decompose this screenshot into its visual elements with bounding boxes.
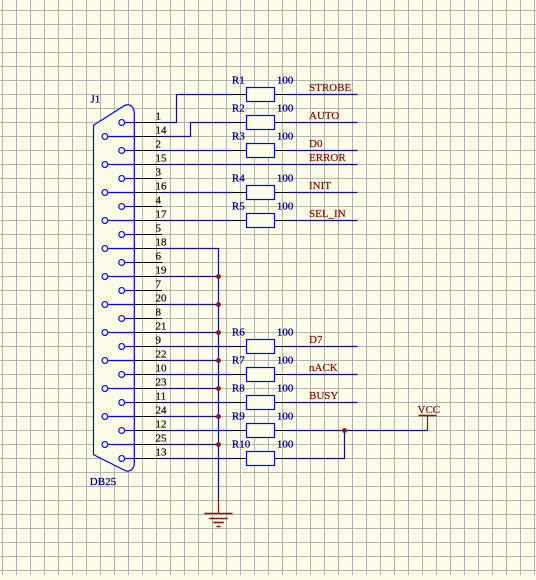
wire net BUSY (289, 402, 358, 404)
wire pin23 to bus (162, 388, 219, 390)
svg-text:J1: J1 (91, 94, 101, 106)
wire pin12 to R9 (162, 430, 233, 432)
svg-text:SEL_IN: SEL_IN (309, 208, 346, 220)
wire net stub y=220 (289, 220, 358, 222)
svg-text:100: 100 (277, 130, 294, 142)
pin 5 (119, 222, 162, 237)
svg-text:VCC: VCC (418, 404, 441, 416)
wire net stub y=122 (289, 122, 358, 124)
wire net nACK (289, 374, 358, 376)
svg-text:R6: R6 (232, 326, 245, 338)
wire pin21 to bus (162, 332, 219, 334)
pin 25 (102, 432, 167, 447)
wire pin10 to R7 (162, 374, 233, 376)
svg-text:INIT: INIT (309, 180, 331, 192)
wire net stub y=192 (289, 192, 358, 194)
svg-text:100: 100 (277, 102, 294, 114)
wire pin17 to R5 (162, 220, 233, 222)
connector J1 body (94, 105, 135, 471)
svg-text:DB25: DB25 (90, 476, 117, 488)
svg-text:R2: R2 (232, 102, 245, 114)
pin 19 (102, 264, 167, 279)
svg-text:D0: D0 (309, 138, 323, 150)
pin 8 (119, 306, 162, 321)
svg-text:3: 3 (156, 166, 162, 178)
pin 17 (102, 208, 167, 223)
svg-text:25: 25 (156, 432, 168, 444)
wire R9 to VCC (289, 430, 428, 432)
svg-text:11: 11 (156, 390, 167, 402)
pin 21 (102, 320, 167, 335)
pin 1 (119, 110, 162, 125)
svg-text:22: 22 (156, 348, 167, 360)
svg-text:ERROR: ERROR (309, 152, 346, 164)
junction (216, 358, 221, 363)
wire pin9 to R6 (162, 346, 233, 348)
svg-text:8: 8 (156, 306, 162, 318)
svg-text:100: 100 (277, 200, 294, 212)
wire pin2 to R3 (162, 150, 233, 152)
svg-text:100: 100 (277, 326, 294, 338)
svg-text:100: 100 (277, 410, 294, 422)
junction (216, 302, 221, 307)
pin 22 (102, 348, 167, 363)
svg-text:R4: R4 (232, 172, 245, 184)
svg-text:R5: R5 (232, 200, 245, 212)
svg-text:7: 7 (156, 278, 162, 290)
wire net D7 (289, 346, 358, 348)
svg-text:100: 100 (277, 172, 294, 184)
svg-text:6: 6 (156, 250, 162, 262)
svg-text:21: 21 (156, 320, 167, 332)
wire R10 riser to junction (289, 431, 345, 459)
svg-text:STROBE: STROBE (309, 82, 351, 94)
svg-text:100: 100 (277, 438, 294, 450)
pin 12 (119, 418, 167, 433)
wire pin19 to bus (162, 276, 219, 278)
power port VCC (418, 404, 441, 431)
pin 11 (119, 390, 166, 405)
resistor R1 value 100 (232, 74, 294, 101)
wire pin22 to bus (162, 360, 219, 362)
svg-text:10: 10 (156, 362, 168, 374)
svg-text:14: 14 (156, 124, 168, 136)
svg-text:2: 2 (156, 138, 162, 150)
pin 9 (119, 334, 162, 349)
junction (342, 428, 347, 433)
svg-text:nACK: nACK (309, 362, 338, 374)
pin 4 (119, 194, 162, 209)
svg-text:R7: R7 (232, 354, 245, 366)
svg-text:17: 17 (156, 208, 168, 220)
svg-text:D7: D7 (309, 334, 323, 346)
wire net stub y=150 (289, 150, 358, 152)
pin 15 (102, 152, 167, 167)
resistor R2 value 100 (232, 102, 294, 129)
wire pin24 to bus (162, 416, 219, 418)
junction (216, 330, 221, 335)
svg-text:13: 13 (156, 446, 168, 458)
svg-text:R1: R1 (232, 74, 245, 86)
wire pin25 to bus (162, 444, 219, 446)
wire pin1 to R1 (162, 95, 233, 123)
pin 24 (102, 404, 167, 419)
pin 23 (102, 376, 167, 391)
pin 18 (102, 236, 167, 251)
pin 16 (102, 180, 167, 195)
wire pin18 to ground bus (162, 249, 219, 500)
svg-text:5: 5 (156, 222, 162, 234)
resistor R8 value 100 (232, 382, 294, 409)
pin 10 (119, 362, 167, 377)
svg-text:R3: R3 (232, 130, 245, 142)
junction (216, 386, 221, 391)
wire pin11 to R8 (162, 402, 233, 404)
resistor R9 value 100 (232, 410, 294, 437)
wire pin16 to R4 (162, 192, 233, 194)
svg-text:16: 16 (156, 180, 168, 192)
svg-text:100: 100 (277, 354, 294, 366)
resistor R4 value 100 (232, 172, 294, 199)
svg-text:100: 100 (277, 74, 294, 86)
svg-text:24: 24 (156, 404, 168, 416)
svg-text:19: 19 (156, 264, 168, 276)
resistor R5 value 100 (232, 200, 294, 227)
svg-text:12: 12 (156, 418, 167, 430)
pin 13 (119, 446, 167, 461)
pin 20 (102, 292, 167, 307)
svg-text:4: 4 (156, 194, 162, 206)
wire pin14 to R2 (162, 123, 233, 137)
resistor R10 value 100 (232, 438, 294, 465)
junction (216, 414, 221, 419)
resistor R6 value 100 (232, 326, 294, 353)
ground symbol (204, 499, 232, 527)
pin 2 (119, 138, 162, 153)
junction (216, 274, 221, 279)
pin 3 (119, 166, 162, 181)
junction (216, 442, 221, 447)
resistor R3 value 100 (232, 130, 294, 157)
svg-text:15: 15 (156, 152, 168, 164)
svg-text:R10: R10 (232, 438, 251, 450)
svg-text:BUSY: BUSY (309, 390, 338, 402)
wire pin13 to R10 (162, 458, 233, 460)
svg-text:R8: R8 (232, 382, 245, 394)
svg-text:R9: R9 (232, 410, 245, 422)
svg-text:18: 18 (156, 236, 168, 248)
svg-text:AUTO: AUTO (309, 110, 339, 122)
wire pin15 ERROR (162, 164, 358, 166)
pin 6 (119, 250, 162, 265)
svg-text:9: 9 (156, 334, 162, 346)
resistor R7 value 100 (232, 354, 294, 381)
pin 7 (119, 278, 162, 293)
wire net stub y=94 (289, 94, 358, 96)
wire pin20 to bus (162, 304, 219, 306)
pin 14 (102, 124, 167, 139)
svg-text:23: 23 (156, 376, 168, 388)
svg-text:20: 20 (156, 292, 168, 304)
svg-text:1: 1 (156, 110, 162, 122)
svg-text:100: 100 (277, 382, 294, 394)
